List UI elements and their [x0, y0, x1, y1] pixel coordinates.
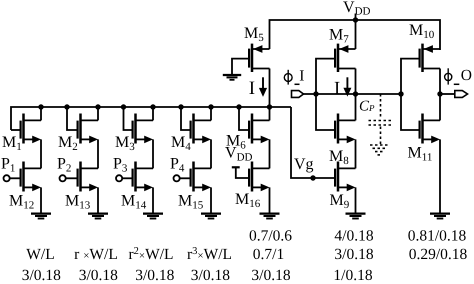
- svg-text:4/0.18: 4/0.18: [334, 227, 373, 244]
- svg-text:1/0.18: 1/0.18: [333, 267, 372, 284]
- current arrow I of M5: [259, 77, 267, 97]
- ground M15: [201, 214, 221, 219]
- svg-text:0.81/0.18: 0.81/0.18: [408, 227, 467, 244]
- ground M11: [430, 214, 450, 219]
- wire M1 drain to bus: [40, 107, 42, 120]
- wire M7 gate drop: [316, 59, 335, 94]
- ground M9: [346, 214, 366, 219]
- svg-text:M11: M11: [408, 144, 433, 163]
- svg-text:M14: M14: [121, 193, 147, 212]
- wire VDD rail: [270, 20, 441, 50]
- svg-text:3/0.18: 3/0.18: [251, 267, 290, 284]
- wire M6-M16 link: [269, 139, 271, 168]
- capacitor CP dashed: [369, 94, 394, 155]
- transistor M6: [249, 114, 269, 144]
- wire M5 gate to ground: [232, 59, 249, 75]
- svg-text:r2×W/L: r2×W/L: [128, 246, 173, 263]
- junction M4 drain on bus: [208, 104, 213, 109]
- ground M13: [88, 214, 108, 219]
- ground M12: [31, 214, 51, 219]
- phi glyph of phi_I: [284, 70, 299, 85]
- transistor M8: [335, 114, 355, 144]
- svg-text:3/0.18: 3/0.18: [79, 267, 118, 284]
- wire M13 source to ground: [97, 187, 99, 213]
- terminal flag phi_O: [455, 91, 468, 98]
- wire M8-M9 link: [355, 139, 357, 168]
- wire M9 source to ground: [355, 187, 357, 213]
- svg-text:Vg: Vg: [294, 156, 314, 173]
- svg-text:0.7/1: 0.7/1: [253, 246, 284, 263]
- wire Vg vertical and M9 gate: [291, 107, 335, 178]
- transistor M14: [133, 162, 153, 192]
- svg-text:r ×W/L: r ×W/L: [74, 246, 118, 263]
- transistor M11: [420, 114, 440, 144]
- wire M10 gate drop: [401, 59, 420, 94]
- svg-text:P4: P4: [170, 156, 185, 175]
- junction M1 drain on bus: [38, 104, 43, 109]
- svg-text:M12: M12: [9, 193, 34, 212]
- transistor M15: [191, 162, 211, 192]
- svg-text:M10: M10: [409, 22, 435, 41]
- ground M14: [143, 214, 163, 219]
- wire phi_O tap: [440, 93, 455, 95]
- wire M16 source to ground: [269, 187, 271, 213]
- junction M2 gate on bus: [64, 104, 69, 109]
- svg-text:r3×W/L: r3×W/L: [187, 246, 232, 263]
- svg-text:M4: M4: [171, 134, 191, 153]
- svg-text:3/0.18: 3/0.18: [135, 267, 174, 284]
- node line phi_I to mirror gates: [304, 93, 402, 95]
- wire M7 source to rail: [355, 20, 357, 49]
- wire M5 drain to bus: [269, 69, 271, 108]
- terminal P2: [60, 175, 66, 181]
- svg-text:P3: P3: [113, 156, 128, 175]
- wire M7/M8 drain column: [355, 69, 357, 121]
- wire M3 drain to bus: [152, 107, 154, 120]
- transistor M13: [78, 162, 98, 192]
- svg-text:M5: M5: [244, 25, 264, 44]
- junction node Vg: [310, 175, 315, 180]
- wire M4 gate drop: [181, 107, 191, 130]
- wire M11 gate drop: [401, 94, 420, 130]
- wire M1-M12 link: [40, 139, 42, 168]
- svg-text:M7: M7: [329, 26, 349, 45]
- junction M5/M6 drain on bus: [267, 104, 272, 109]
- wire bias bus: [11, 107, 291, 130]
- wire M6 drain to bus: [269, 107, 271, 120]
- svg-text:W/L: W/L: [26, 246, 54, 263]
- junction M7 drain / M8 drain: [353, 91, 358, 96]
- svg-text:M16: M16: [235, 191, 261, 210]
- wire M2 gate drop: [67, 107, 78, 130]
- wire M1 gate entry: [11, 129, 21, 131]
- svg-text:I: I: [334, 79, 340, 99]
- svg-text:P1: P1: [1, 156, 15, 175]
- wire M4 drain to bus: [210, 107, 212, 120]
- terminal flag phi_I: [292, 91, 468, 98]
- svg-text:CP: CP: [359, 99, 375, 115]
- wire M3 gate drop: [124, 107, 133, 130]
- svg-text:O: O: [461, 67, 472, 84]
- transistor M3: [133, 114, 153, 144]
- svg-text:I: I: [299, 68, 304, 85]
- transistor M5: [249, 44, 269, 72]
- ground M16: [260, 214, 280, 219]
- junction M4 gate on bus: [178, 104, 183, 109]
- wire M11 source to ground: [439, 139, 441, 213]
- wire M2 drain to bus: [97, 107, 99, 120]
- svg-text:VDD: VDD: [343, 0, 371, 18]
- junction VDD rail: [353, 17, 358, 22]
- wire M2-M13 link: [97, 139, 99, 168]
- wire M4-M15 link: [210, 139, 212, 168]
- svg-text:3/0.18: 3/0.18: [22, 267, 61, 284]
- wire M3-M14 link: [152, 139, 154, 168]
- junction phi_I / M7 gate / M8 gate: [313, 91, 318, 96]
- node VDD tick: [355, 14, 357, 21]
- terminal P4: [174, 175, 180, 181]
- ground M5 gate: [223, 75, 241, 80]
- svg-text:I: I: [249, 78, 255, 99]
- svg-text:M8: M8: [329, 148, 349, 167]
- transistor M12: [21, 162, 41, 192]
- terminal P3: [116, 175, 122, 181]
- wire M15 source to ground: [210, 187, 212, 213]
- svg-text:0.29/0.18: 0.29/0.18: [409, 246, 468, 263]
- wire M6 gate drop: [239, 107, 249, 130]
- terminal P1: [4, 175, 191, 181]
- transistor M16: [249, 162, 269, 192]
- svg-text:P2: P2: [57, 156, 71, 175]
- transistor M4: [191, 114, 211, 144]
- transistor M9: [335, 162, 355, 192]
- junction M2 drain on bus: [95, 104, 100, 109]
- svg-text:3/0.18: 3/0.18: [334, 246, 373, 263]
- svg-text:0.7/0.6: 0.7/0.6: [249, 227, 292, 244]
- wire M8 gate drop: [316, 94, 335, 130]
- wire M16 gate VDD symbol: [236, 167, 249, 178]
- table texts: [22, 227, 468, 283]
- svg-text:M1: M1: [2, 134, 22, 153]
- svg-text:M15: M15: [178, 193, 204, 212]
- junction M3 gate on bus: [121, 104, 126, 109]
- svg-text:M2: M2: [58, 134, 78, 153]
- junction M3 drain on bus: [150, 104, 155, 109]
- wire M10/M11 drain column: [439, 69, 441, 121]
- svg-text:M9: M9: [330, 192, 350, 211]
- svg-text:3/0.18: 3/0.18: [191, 267, 230, 284]
- transistor M2: [78, 114, 98, 144]
- transistor M7: [335, 44, 355, 72]
- phi glyph of phi_O: [445, 68, 460, 84]
- transistor M1: [21, 114, 41, 144]
- wire M12 source to ground: [40, 187, 42, 213]
- junction M10 gate / M11 gate: [398, 91, 403, 96]
- svg-text:M13: M13: [65, 193, 91, 212]
- junction M10 drain / phi_O: [437, 91, 442, 96]
- wire M14 source to ground: [152, 187, 154, 213]
- transistor M10: [420, 44, 440, 72]
- junction M6 gate on bus: [236, 104, 241, 109]
- current arrow I of M7: [343, 77, 351, 96]
